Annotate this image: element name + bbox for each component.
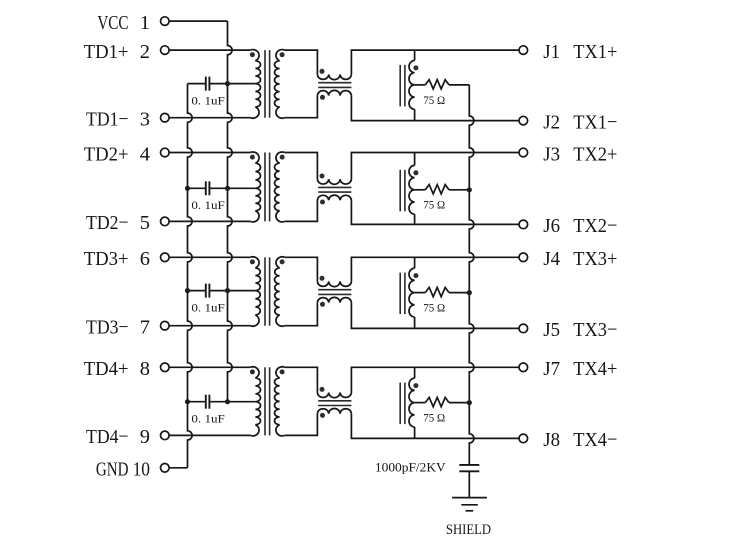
wire choke L3 bottom output to J row [351, 303, 519, 329]
wire GND rail (vertical, hops over TD rows) [188, 84, 193, 468]
pin 4 terminal circle [161, 148, 170, 157]
autotransformer A1 phase dot [413, 65, 418, 70]
resistor R1 75ohm right lead [449, 84, 469, 86]
capacitor C3 0.1uF leads [188, 290, 228, 292]
autotransformer A2 winding [409, 165, 415, 214]
choke L1 bottom phase dot [320, 95, 325, 100]
pin 10 GND label [96, 457, 150, 481]
resistor R4 75ohm left lead [415, 402, 426, 404]
choke L2 top winding [317, 179, 351, 184]
svg-text:0. 1uF: 0. 1uF [191, 94, 224, 107]
svg-text:TD1+: TD1+ [84, 41, 129, 63]
svg-text:0. 1uF: 0. 1uF [191, 199, 224, 212]
pin J4 TX3+ label [543, 247, 617, 270]
wire termination rail to 1000pF cap (hops over J rows) [469, 85, 474, 464]
svg-text:TD1−: TD1− [86, 108, 128, 130]
wire choke L1 top output to J row [351, 50, 519, 74]
capacitor C1 0.1uF leads [188, 83, 228, 85]
wire choke L2 top output to J row [351, 153, 519, 180]
transformer T4 core [265, 367, 270, 435]
autotransformer A3 winding [409, 268, 415, 317]
wire T3 secondary top to choke L3 [285, 257, 318, 281]
pin J3 terminal circle [519, 148, 528, 157]
wire autotransformer A4 bottom riser [414, 427, 416, 438]
choke L2 top phase dot [320, 174, 325, 179]
pin J7 TX4+ label [543, 357, 617, 380]
choke L4 bottom winding [317, 409, 351, 414]
wire TD2- row [169, 220, 250, 222]
wire T4 secondary top to choke L4 [285, 367, 318, 392]
capacitor C2 plates [206, 181, 210, 195]
svg-text:TD3−: TD3− [86, 316, 128, 338]
wire TD2+ row [169, 152, 250, 154]
wire autotransformer A3 top riser [414, 257, 416, 268]
wire T1 secondary top to choke L1 [285, 50, 318, 74]
autotransformer A3 core [400, 273, 405, 315]
junction dot rail/cap row at GND rail ch3 [185, 288, 190, 293]
svg-text:0. 1uF: 0. 1uF [191, 412, 224, 425]
pin J7 terminal circle [519, 363, 528, 372]
svg-text:TD4−: TD4− [86, 426, 128, 448]
transformer T2 core [265, 153, 270, 222]
wire TD3- row [169, 325, 250, 327]
wire center tap row to transformer T2 [228, 187, 256, 189]
pin 9 terminal circle [161, 431, 170, 440]
transformer T2 secondary winding [275, 152, 285, 222]
junction dot rail/cap row at VCC rail ch1 [225, 81, 230, 86]
wire T3 secondary bottom to choke L3 [285, 303, 318, 326]
transformer T4 primary phase dot [250, 369, 255, 374]
capacitor C5 1000pF/2KV plates [459, 465, 479, 471]
svg-text:VCC: VCC [97, 11, 128, 34]
wire center tap row to transformer T1 [228, 83, 256, 85]
svg-text:75 Ω: 75 Ω [423, 302, 445, 314]
wire GND pin10 to GND rail [169, 467, 187, 469]
svg-text:4: 4 [140, 143, 150, 165]
junction dot rail/cap row at VCC rail ch2 [225, 186, 230, 191]
transformer T3 secondary phase dot [280, 259, 285, 264]
capacitor C2 0.1uF leads [188, 187, 228, 189]
pin J2 TX1− label [543, 111, 617, 134]
pin 5 terminal circle [161, 217, 170, 226]
svg-text:J3: J3 [543, 143, 560, 166]
choke L4 core [318, 401, 351, 406]
wire TD1- row [169, 117, 250, 119]
transformer T2 primary winding [250, 152, 260, 222]
autotransformer A1 winding [409, 61, 415, 110]
pin 1 VCC label [97, 11, 150, 34]
resistor R3 75ohm left lead [415, 292, 426, 294]
svg-text:75 Ω: 75 Ω [423, 94, 445, 106]
choke L2 bottom phase dot [320, 200, 325, 205]
svg-text:10: 10 [133, 458, 150, 481]
svg-text:6: 6 [140, 248, 150, 270]
capacitor C1 plates [206, 77, 210, 91]
svg-text:TD4+: TD4+ [84, 358, 129, 380]
svg-text:3: 3 [140, 109, 150, 131]
autotransformer A2 core [400, 170, 405, 212]
wire autotransformer A1 bottom riser [414, 109, 416, 120]
wire VCC rail (vertical, hops over TD rows) [228, 21, 233, 402]
wire C5 to shield ground [468, 471, 470, 497]
choke L3 bottom phase dot [320, 302, 325, 307]
autotransformer A4 core [400, 383, 405, 425]
wire choke L4 bottom output to J row [351, 414, 519, 439]
autotransformer A3 phase dot [413, 273, 418, 278]
transformer T1 secondary phase dot [280, 52, 285, 57]
choke L1 top winding [317, 74, 351, 79]
svg-text:J2: J2 [543, 111, 560, 134]
choke L3 top phase dot [320, 276, 325, 281]
wire TD4- row [169, 434, 250, 436]
choke L3 bottom winding [317, 297, 351, 302]
svg-text:TX2−: TX2− [573, 215, 617, 237]
svg-text:TX1−: TX1− [573, 112, 617, 134]
transformer T3 core [265, 257, 270, 325]
resistor R3 75ohm body [425, 287, 449, 296]
pin J6 TX2− label [543, 215, 617, 238]
resistor R1 75ohm left lead [415, 84, 426, 86]
svg-text:2: 2 [140, 41, 150, 63]
wire T1 secondary bottom to choke L1 [285, 96, 318, 118]
svg-text:75 Ω: 75 Ω [423, 199, 445, 211]
transformer T3 secondary winding [275, 257, 285, 326]
pin 2 terminal circle [161, 46, 170, 55]
svg-text:TD3+: TD3+ [84, 248, 129, 270]
choke L2 bottom winding [317, 195, 351, 200]
pin J8 TX4− label [543, 429, 617, 452]
svg-text:J1: J1 [543, 40, 560, 63]
transformer T3 primary winding [250, 257, 260, 326]
capacitor C4 0.1uF leads [188, 401, 228, 403]
svg-text:75 Ω: 75 Ω [423, 412, 445, 424]
pin 7 TD3− label [86, 316, 150, 338]
svg-text:J6: J6 [543, 215, 560, 238]
pin 2 TD1+ label [84, 41, 150, 63]
pin 8 TD4+ label [84, 358, 150, 380]
svg-text:1000pF/2KV: 1000pF/2KV [375, 460, 446, 475]
pin J5 terminal circle [519, 324, 528, 333]
junction dot rail/cap row at VCC rail ch3 [225, 288, 230, 293]
pin J6 terminal circle [519, 220, 528, 229]
wire choke L1 bottom output to J row [351, 96, 519, 121]
resistor R2 75ohm left lead [415, 189, 426, 191]
svg-text:J4: J4 [543, 247, 560, 270]
ground SHIELD symbol [452, 498, 487, 511]
svg-text:TX1+: TX1+ [573, 41, 617, 63]
svg-text:TX4+: TX4+ [573, 358, 617, 380]
svg-text:J8: J8 [543, 429, 560, 452]
transformer T1 secondary winding [275, 50, 285, 119]
choke L3 top winding [317, 281, 351, 286]
capacitor C3 plates [206, 284, 210, 298]
svg-text:SHIELD: SHIELD [446, 521, 491, 537]
autotransformer A4 phase dot [413, 383, 418, 388]
pin J4 terminal circle [519, 253, 528, 262]
wire TD3+ row [169, 256, 250, 258]
pin 10 terminal circle [161, 464, 170, 473]
pin 9 TD4− label [86, 426, 150, 448]
svg-text:J5: J5 [543, 319, 560, 342]
choke L1 core [318, 83, 351, 88]
junction dot resistor R2 to termination rail [467, 187, 472, 192]
wire center tap row to transformer T3 [228, 290, 256, 292]
wire T4 secondary bottom to choke L4 [285, 414, 318, 436]
autotransformer A1 core [400, 65, 405, 107]
pin J5 TX3− label [543, 319, 617, 342]
svg-text:TX4−: TX4− [573, 429, 617, 451]
pin J1 TX1+ label [543, 40, 617, 63]
svg-text:5: 5 [140, 212, 150, 234]
transformer T1 primary winding [250, 50, 260, 119]
wire choke L2 bottom output to J row [351, 200, 519, 224]
pin J1 terminal circle [519, 46, 528, 55]
pin J8 terminal circle [519, 434, 528, 443]
pin 5 TD2− label [86, 212, 150, 234]
pin 3 TD1− label [86, 108, 150, 130]
junction dot resistor R4 to termination rail [467, 400, 472, 405]
wire TD1+ row [169, 49, 250, 51]
wire choke L4 top output to J row [351, 367, 519, 392]
wire T2 secondary bottom to choke L2 [285, 200, 318, 221]
wire choke L3 top output to J row [351, 257, 519, 281]
junction dot rail/cap row at GND rail ch4 [185, 399, 190, 404]
capacitor C4 plates [206, 395, 210, 409]
wire VCC pin1 to VCC rail [169, 20, 227, 22]
pin 6 TD3+ label [84, 248, 150, 270]
svg-text:TX2+: TX2+ [573, 143, 617, 165]
resistor R2 75ohm body [425, 185, 449, 194]
choke L2 core [318, 187, 351, 192]
wire center tap row to transformer T4 [228, 401, 256, 403]
transformer T2 primary phase dot [250, 155, 255, 160]
autotransformer A4 winding [409, 378, 415, 427]
choke L1 top phase dot [320, 69, 325, 74]
pin J3 TX2+ label [543, 143, 617, 166]
pin 6 terminal circle [161, 253, 170, 262]
svg-text:7: 7 [140, 317, 150, 339]
junction dot rail/cap row at GND rail ch2 [185, 186, 190, 191]
pin 7 terminal circle [161, 321, 170, 330]
transformer T2 secondary phase dot [280, 155, 285, 160]
wire autotransformer A4 top riser [414, 367, 416, 378]
choke L4 top winding [317, 393, 351, 398]
resistor R3 75ohm right lead [449, 292, 469, 294]
resistor R2 75ohm right lead [449, 189, 469, 191]
pin J2 terminal circle [519, 116, 528, 125]
svg-text:0. 1uF: 0. 1uF [191, 301, 224, 314]
wire autotransformer A3 bottom riser [414, 317, 416, 328]
transformer T4 secondary winding [274, 367, 284, 436]
wire autotransformer A2 top riser [414, 153, 416, 166]
choke L4 bottom phase dot [320, 413, 325, 418]
wire TD4+ row [169, 366, 250, 368]
svg-text:8: 8 [140, 358, 150, 380]
resistor R4 75ohm body [425, 397, 449, 406]
choke L4 top phase dot [320, 387, 325, 392]
transformer T4 secondary phase dot [280, 369, 285, 374]
resistor R1 75ohm body [425, 80, 449, 89]
pin 3 terminal circle [161, 113, 170, 122]
transformer T1 core [265, 50, 270, 118]
svg-text:1: 1 [140, 12, 150, 34]
svg-text:TD2+: TD2+ [84, 144, 129, 166]
pin 1 terminal circle [161, 17, 170, 26]
svg-text:GND: GND [96, 457, 129, 480]
transformer T4 primary winding [250, 367, 260, 436]
autotransformer A2 phase dot [413, 170, 418, 175]
svg-text:TD2−: TD2− [86, 212, 128, 234]
choke L3 core [318, 290, 351, 295]
transformer T1 primary phase dot [250, 52, 255, 57]
svg-text:TX3+: TX3+ [573, 248, 617, 270]
pin 8 terminal circle [161, 363, 170, 372]
svg-text:J7: J7 [543, 357, 560, 380]
svg-text:9: 9 [140, 426, 150, 448]
svg-text:TX3−: TX3− [573, 319, 617, 341]
transformer T3 primary phase dot [250, 259, 255, 264]
wire autotransformer A2 bottom riser [414, 214, 416, 224]
junction dot resistor R3 to termination rail [467, 290, 472, 295]
wire T2 secondary top to choke L2 [285, 153, 318, 180]
junction dot rail/cap row at VCC rail ch4 [225, 399, 230, 404]
wire autotransformer A1 top riser [414, 50, 416, 60]
resistor R4 75ohm right lead [449, 402, 469, 404]
choke L1 bottom winding [317, 90, 351, 95]
pin 4 TD2+ label [84, 143, 150, 165]
